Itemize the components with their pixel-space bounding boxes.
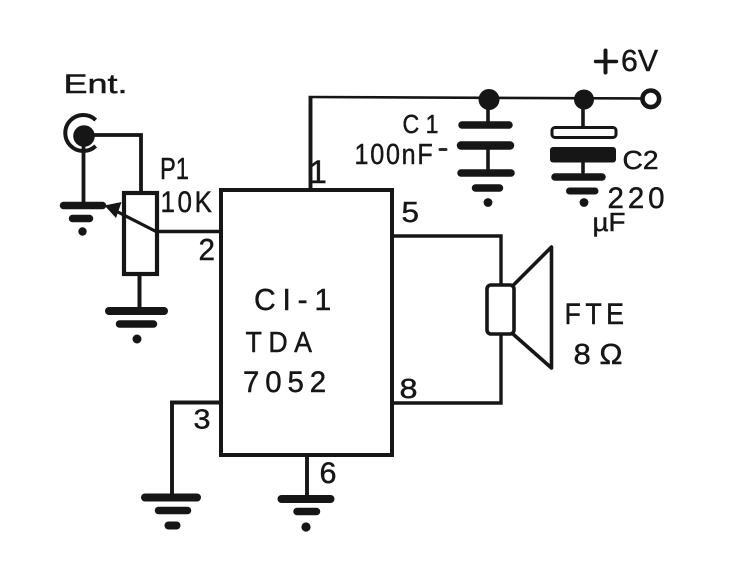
svg-text:Ent.: Ent. [64,69,128,99]
wire P1 wiper to pin 2 [157,230,222,234]
svg-text:3: 3 [194,404,211,435]
potentiometer P1 [105,193,158,274]
IC CI-1 TDA7052 [221,190,392,455]
ground (C1) [461,173,511,207]
svg-text:8 Ω: 8 Ω [574,339,623,371]
svg-text:CI-1: CI-1 [254,282,338,317]
svg-text:FTE: FTE [565,298,629,331]
wire jack to P1 top [93,135,141,192]
svg-text:7052: 7052 [243,366,332,399]
wire jack to ground [82,145,86,204]
wire pin 6 to ground [305,455,309,497]
ground (input jack) [64,206,103,236]
svg-text:8: 8 [400,373,418,404]
ground (pin 6) [282,499,331,532]
svg-text:100nF: 100nF [355,139,435,171]
wire pin 5 to speaker [392,236,501,286]
ground (C2) [555,177,602,207]
svg-text:C 1: C 1 [403,111,439,139]
wire pin 1 to supply [309,97,313,190]
svg-text:P1: P1 [160,151,189,186]
ground (P1) [109,311,164,344]
svg-text:6: 6 [320,457,337,490]
terminal +6V [643,91,660,108]
svg-text:C2: C2 [623,147,659,175]
svg-text:6V: 6V [621,43,658,78]
junction node (C2) [574,90,594,110]
svg-text:1: 1 [309,154,327,190]
ground (pin 3) [145,498,197,526]
svg-text:10K: 10K [161,186,215,219]
input jack J1 [65,115,95,151]
speaker FTE [487,247,552,368]
capacitor C2 [550,106,616,172]
label +6V [596,51,617,73]
svg-text:TDA: TDA [246,327,319,359]
svg-text:5: 5 [402,197,420,229]
wire pin 3 to ground [172,403,221,496]
stray mark [440,148,446,151]
junction node (C1) [479,89,500,110]
svg-text:µF: µF [593,207,626,237]
capacitor C1 [461,106,510,169]
svg-text:2: 2 [199,232,216,267]
supply wire [309,97,644,99]
wire P1 to ground [138,274,142,308]
wire pin 8 to speaker [392,334,501,403]
